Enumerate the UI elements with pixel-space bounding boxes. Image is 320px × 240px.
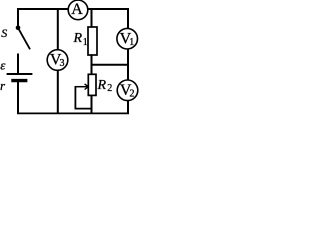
- svg-text:1: 1: [83, 37, 88, 48]
- battery short thick plate: [11, 79, 27, 82]
- svg-text:3: 3: [60, 58, 65, 69]
- svg-text:A: A: [71, 1, 83, 18]
- svg-text:R: R: [97, 78, 107, 93]
- wire left vertical below battery: [17, 82, 19, 114]
- svg-text:ε: ε: [0, 57, 6, 72]
- wire left vertical upper (to switch): [17, 8, 19, 28]
- resistor R1 box: [88, 27, 97, 55]
- wire right vertical: [127, 8, 129, 113]
- battery long plate: [7, 73, 33, 75]
- svg-text:S: S: [1, 26, 7, 40]
- wire bottom: [17, 112, 129, 114]
- wire R1-R2 branch vertical: [91, 8, 93, 113]
- rheostat wiper tail vertical: [74, 86, 76, 109]
- svg-text:2: 2: [130, 89, 135, 100]
- svg-text:1: 1: [129, 37, 134, 48]
- wire middle horizontal (R1/R2 junction to right branch): [92, 64, 129, 66]
- svg-text:2: 2: [107, 83, 112, 94]
- svg-text:R: R: [73, 31, 83, 46]
- rheostat wiper tail horizontal link: [75, 108, 92, 110]
- voltmeter V1 circle: [117, 28, 138, 49]
- ammeter A circle: [68, 0, 88, 20]
- voltmeter V3 circle: [47, 50, 68, 71]
- rheostat R2 box: [88, 74, 96, 95]
- background: [0, 0, 140, 115]
- wire V3 branch vertical: [57, 8, 59, 113]
- switch S pivot dot: [16, 26, 21, 31]
- rheostat wiper arrowhead: [85, 84, 89, 87]
- wire left vertical lower (switch to battery): [17, 54, 19, 74]
- wire top: battery branch to right branch: [17, 8, 129, 10]
- voltmeter V2 circle: [117, 80, 138, 101]
- rheostat wiper arrow shaft: [75, 86, 87, 88]
- switch S blade: [18, 28, 30, 50]
